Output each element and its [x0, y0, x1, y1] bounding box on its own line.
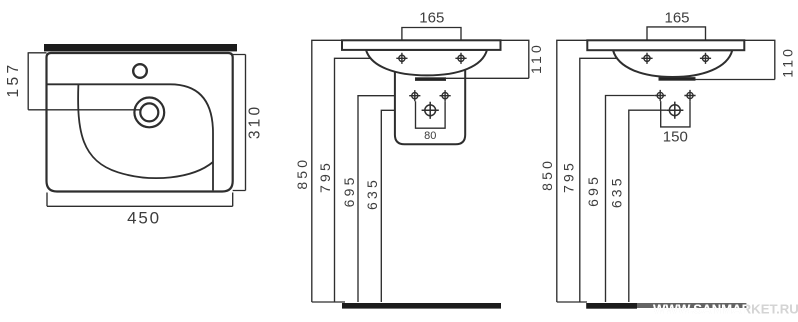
svg-text:850: 850 — [294, 157, 310, 190]
svg-text:695: 695 — [585, 174, 601, 207]
dimension 157 lines — [28, 52, 141, 110]
svg-text:150: 150 — [663, 129, 688, 146]
floor line middle — [312, 301, 345, 303]
svg-text:850: 850 — [539, 158, 555, 191]
dimension 165 bracket right — [647, 27, 706, 54]
svg-text:635: 635 — [364, 177, 380, 210]
dimension 695 line — [358, 96, 409, 302]
slab (basin top) — [342, 40, 501, 50]
dimension 165 bracket — [402, 28, 461, 54]
dimension 110 lines right — [695, 40, 775, 79]
dimension 110 lines — [446, 40, 529, 78]
svg-text:157: 157 — [5, 61, 22, 97]
slab right — [587, 40, 744, 50]
basin outline — [47, 53, 233, 192]
drain outer circle — [134, 98, 164, 128]
dimension 850 line — [312, 40, 342, 302]
dimension 795 line right — [580, 58, 642, 302]
wall bar — [44, 44, 237, 51]
dimension 310 lines — [233, 55, 246, 191]
floor line right — [557, 301, 587, 303]
drain flange — [416, 78, 446, 81]
basin bowl (side) — [613, 50, 732, 77]
dimension 80 bracket — [416, 101, 446, 128]
svg-text:310: 310 — [247, 104, 264, 139]
floor bar right gray part — [637, 303, 746, 308]
inner rim line — [48, 84, 214, 190]
dimension 795 line — [335, 58, 397, 302]
svg-text:110: 110 — [779, 46, 795, 78]
mounting hole right (right view) — [700, 53, 711, 64]
dimension 450 lines — [47, 193, 233, 207]
pedestal hole right — [440, 90, 451, 101]
bowl curve — [78, 84, 213, 178]
pedestal hole left — [409, 90, 420, 101]
dimension 695 line right — [606, 96, 655, 303]
svg-text:695: 695 — [341, 174, 357, 207]
drain flange right — [659, 78, 695, 81]
drain cross right — [666, 102, 683, 119]
mounting hole left — [396, 53, 407, 64]
dimension 850 line right — [557, 40, 588, 302]
svg-text:635: 635 — [609, 175, 625, 208]
svg-text:165: 165 — [664, 9, 689, 26]
svg-text:795: 795 — [317, 160, 333, 193]
fixing hole right (right view) — [684, 90, 695, 101]
mounting hole left (right view) — [641, 53, 652, 64]
drain cross — [422, 102, 439, 119]
svg-text:795: 795 — [560, 160, 576, 193]
mounting hole right — [455, 53, 466, 64]
svg-text:165: 165 — [419, 9, 444, 26]
dimension 150 bracket — [661, 101, 690, 127]
fixing hole left (right view) — [655, 90, 666, 101]
dimension 635 line right — [629, 110, 666, 302]
floor bar right black part — [586, 303, 637, 309]
svg-text:450: 450 — [127, 209, 161, 228]
svg-text:110: 110 — [528, 42, 544, 74]
semi-pedestal — [395, 64, 465, 144]
drain inner circle — [140, 103, 158, 121]
faucet hole — [133, 64, 147, 78]
floor bar middle — [342, 303, 501, 309]
svg-text:80: 80 — [424, 130, 436, 142]
dimension 635 line — [381, 110, 421, 302]
basin bowl (front) — [366, 50, 487, 76]
